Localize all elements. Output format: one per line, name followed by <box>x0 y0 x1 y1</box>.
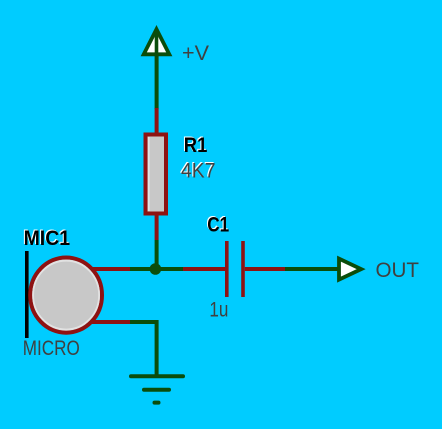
ground <box>131 376 183 402</box>
pin: MIC1 bottom pin (red) <box>91 320 130 324</box>
wire: +V symbol stem (green, vertical) <box>155 56 159 109</box>
label OUT <box>376 259 420 282</box>
svg-text:R1: R1 <box>184 134 208 157</box>
label MIC1 <box>23 226 71 250</box>
svg-text:C1: C1 <box>207 213 229 236</box>
wire: junction to C1 net (green, horizontal) <box>130 267 184 271</box>
capacitor C1 <box>227 241 243 297</box>
microphone MIC1 <box>27 251 102 338</box>
svg-text:MIC1: MIC1 <box>24 227 71 250</box>
output terminal OUT <box>339 259 361 280</box>
label R1 <box>183 133 208 157</box>
label C1 <box>206 212 229 236</box>
svg-text:4K7: 4K7 <box>181 159 216 182</box>
wire: C1 to OUT terminal (green, horizontal) <box>285 267 341 271</box>
label +V <box>182 42 209 65</box>
name label MICRO <box>23 337 80 360</box>
pin: C1 right pin (red) <box>245 267 285 271</box>
wire: R1 to junction (green, vertical) <box>155 240 159 269</box>
value label 4K7 <box>180 158 216 182</box>
node junction <box>150 263 162 275</box>
wire: MIC1 to ground (green, L-shaped) <box>130 322 157 375</box>
resistor R1 <box>146 135 167 214</box>
svg-text:MICRO: MICRO <box>23 337 80 360</box>
pin: MIC1 top pin (red) <box>91 267 130 271</box>
svg-text:1u: 1u <box>209 299 228 322</box>
value label 1u <box>209 299 228 322</box>
pin: R1 top pin (red) <box>155 108 159 134</box>
svg-text:OUT: OUT <box>376 259 420 282</box>
power symbol +V <box>144 29 170 56</box>
pin: R1 bottom pin (red) <box>155 216 159 241</box>
pin: C1 left pin (red) <box>183 267 225 271</box>
svg-text:+V: +V <box>182 42 209 65</box>
